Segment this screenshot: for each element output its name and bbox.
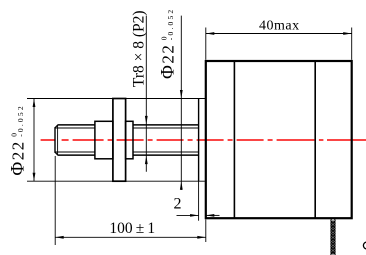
svg-text:Tr8 × 8 (P2): Tr8 × 8 (P2) [131, 10, 148, 87]
svg-text:Φ22: Φ22 [157, 44, 178, 79]
svg-text:40max: 40max [259, 19, 300, 34]
svg-text:Φ22: Φ22 [7, 140, 28, 175]
svg-text:100 ± 1: 100 ± 1 [109, 220, 155, 237]
svg-text:-0.052: -0.052 [166, 8, 175, 41]
svg-text:2: 2 [174, 196, 182, 213]
svg-text:-0.052: -0.052 [16, 104, 25, 137]
